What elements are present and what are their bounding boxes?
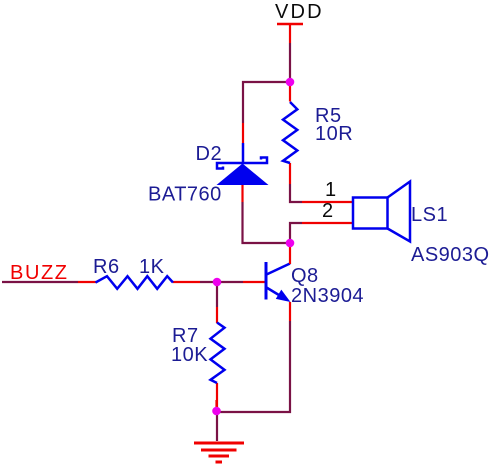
svg-text:BAT760: BAT760 xyxy=(148,184,222,206)
svg-text:VDD: VDD xyxy=(275,1,324,23)
svg-text:1: 1 xyxy=(325,179,336,201)
svg-text:10R: 10R xyxy=(315,123,353,145)
svg-text:LS1: LS1 xyxy=(411,204,448,226)
svg-text:10K: 10K xyxy=(171,344,208,366)
svg-text:Q8: Q8 xyxy=(291,265,319,287)
svg-text:BUZZ: BUZZ xyxy=(10,262,69,284)
svg-text:D2: D2 xyxy=(196,143,223,165)
svg-text:AS903Q: AS903Q xyxy=(411,244,490,266)
svg-text:1K: 1K xyxy=(139,256,165,278)
svg-text:2: 2 xyxy=(322,200,333,222)
svg-text:2N3904: 2N3904 xyxy=(291,285,364,307)
svg-text:R6: R6 xyxy=(93,256,120,278)
